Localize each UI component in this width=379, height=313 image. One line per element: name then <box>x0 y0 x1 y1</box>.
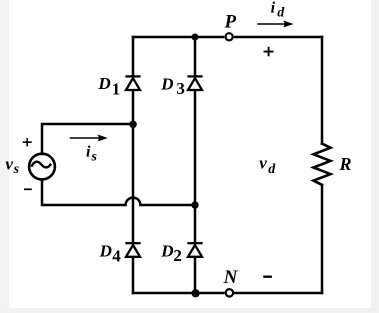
svg-text:D: D <box>160 242 173 261</box>
svg-text:D: D <box>160 74 173 93</box>
svg-text:s: s <box>91 149 98 164</box>
svg-text:4: 4 <box>112 247 121 266</box>
svg-text:d: d <box>268 162 276 177</box>
svg-text:s: s <box>13 162 20 177</box>
svg-text:1: 1 <box>112 80 121 99</box>
svg-text:v: v <box>5 154 13 173</box>
svg-text:D: D <box>99 242 112 261</box>
svg-text:P: P <box>224 12 237 33</box>
svg-text:D: D <box>97 74 110 93</box>
svg-text:R: R <box>339 154 352 174</box>
svg-text:N: N <box>223 267 239 288</box>
svg-text:3: 3 <box>176 79 185 98</box>
svg-text:i: i <box>86 143 91 160</box>
svg-text:i: i <box>271 0 276 17</box>
svg-text:v: v <box>259 154 267 173</box>
svg-text:2: 2 <box>173 246 182 265</box>
svg-text:d: d <box>277 5 285 20</box>
